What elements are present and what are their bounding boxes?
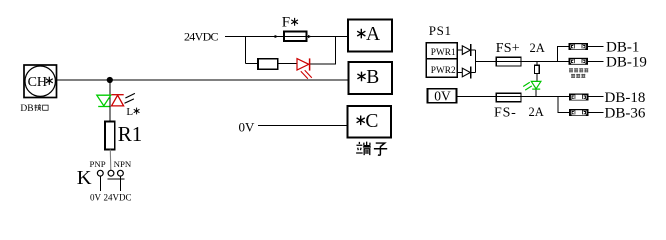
svg-text:B: B (366, 67, 379, 88)
svg-text:FS-: FS- (494, 105, 517, 120)
label 端子 (356, 142, 387, 156)
lower branch wire (246, 63, 298, 65)
svg-text:C: C (365, 111, 378, 132)
wire 0V to *C (258, 124, 348, 126)
svg-text:R1: R1 (118, 122, 143, 146)
fuse F* (284, 32, 307, 42)
wire down to LED pair (109, 80, 111, 122)
junction dot (107, 77, 113, 83)
fuse FS- (496, 93, 521, 101)
box *A (348, 19, 392, 51)
tiny note text line2 (571, 74, 585, 78)
svg-text:0V: 0V (239, 119, 256, 134)
svg-text:PS1: PS1 (429, 23, 452, 38)
svg-text:FS+: FS+ (496, 41, 520, 56)
small fuse (indicator) (535, 65, 540, 73)
terminal wires (100, 176, 124, 191)
green LED indicator (523, 81, 541, 90)
wire LED to junction (310, 37, 348, 65)
tiny note text line1 (569, 68, 588, 72)
connector DB-36 (569, 109, 589, 116)
red LED diode (297, 58, 312, 78)
svg-text:DB-19: DB-19 (606, 54, 647, 70)
svg-text:24VDC: 24VDC (104, 193, 132, 202)
sensor CH* box (24, 65, 57, 98)
svg-text:0V: 0V (90, 193, 102, 202)
diode D1 (457, 44, 475, 56)
0V rail wire (457, 96, 570, 98)
top wire (225, 36, 306, 38)
indicator branch (536, 61, 538, 65)
svg-text:DB-18: DB-18 (605, 90, 646, 106)
green LED (down) (97, 95, 111, 106)
box PWR1 (426, 43, 457, 59)
box PWR2 (426, 59, 457, 78)
svg-text:CH: CH (28, 75, 47, 90)
connector DB-19 (569, 58, 589, 65)
red LED (up) (111, 95, 123, 106)
main wire to *B (57, 79, 349, 81)
svg-text:NPN: NPN (114, 159, 132, 169)
svg-text:DB-36: DB-36 (605, 105, 646, 121)
svg-text:PWR2: PWR2 (431, 66, 456, 76)
fuse FS+ (496, 57, 521, 66)
svg-text:PNP: PNP (90, 159, 106, 169)
wire after fuse (306, 36, 348, 38)
box *B (348, 62, 392, 94)
branch down wire (245, 37, 247, 64)
label DB接口 (20, 104, 48, 114)
wire bus to FS+ (475, 60, 521, 62)
svg-text:A: A (366, 24, 380, 45)
svg-text:K: K (77, 167, 92, 189)
svg-text:L: L (126, 106, 133, 118)
svg-text:DB: DB (20, 104, 33, 114)
bottom connector branch wire (558, 97, 569, 113)
flow arrow (275, 35, 279, 38)
box 0V (428, 89, 457, 103)
wire FS+ to connectors (521, 60, 569, 62)
svg-text:24VDC: 24VDC (184, 30, 219, 44)
svg-text:F: F (282, 15, 290, 31)
terminal circles (97, 170, 123, 176)
svg-text:2A: 2A (530, 41, 545, 55)
gray wire to terminal (109, 150, 112, 171)
flow arrow (308, 35, 312, 38)
connector DB-18 (569, 94, 589, 101)
svg-text:0V: 0V (434, 89, 451, 104)
resistor (series) (258, 59, 278, 70)
label F* (282, 15, 298, 31)
diode output bus (474, 50, 476, 72)
connector DB-1 (569, 43, 589, 50)
diode D2 (457, 66, 475, 78)
svg-text:DB-1: DB-1 (606, 40, 639, 56)
label L* (126, 106, 139, 118)
svg-text:PWR1: PWR1 (431, 48, 456, 58)
svg-text:2A: 2A (529, 105, 544, 119)
top connector branch wire (558, 47, 569, 62)
resistor R1 (105, 122, 115, 150)
LED emission arrows (125, 93, 135, 103)
box *C (348, 106, 392, 137)
